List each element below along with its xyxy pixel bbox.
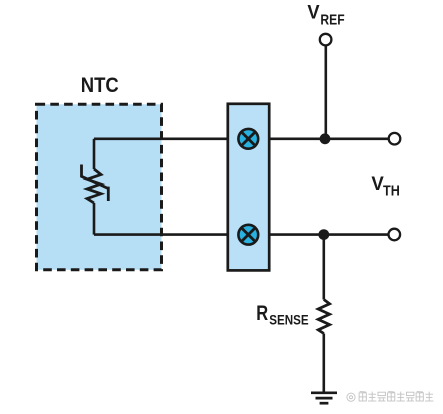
svg-text:SENSE: SENSE xyxy=(269,313,308,329)
svg-text:V: V xyxy=(371,173,383,195)
svg-text:TH: TH xyxy=(383,184,400,200)
svg-text:R: R xyxy=(256,302,268,325)
svg-text:REF: REF xyxy=(320,12,344,28)
svg-text:NTC: NTC xyxy=(81,73,119,97)
svg-text:V: V xyxy=(307,3,319,24)
